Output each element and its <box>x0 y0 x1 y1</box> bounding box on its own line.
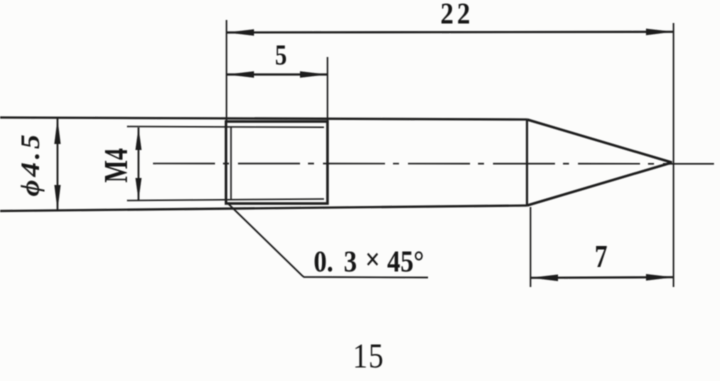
node thread outer box <box>226 122 328 204</box>
svg-text:3: 3 <box>344 245 357 279</box>
svg-text:5: 5 <box>275 40 287 71</box>
svg-text:15: 15 <box>353 337 384 376</box>
svg-text:0.: 0. <box>314 245 334 279</box>
svg-text:22: 22 <box>440 0 473 31</box>
node arrow 7 left <box>531 275 559 282</box>
wire cone bottom slope <box>527 163 672 206</box>
svg-text:×: × <box>365 243 380 277</box>
node arrowheads <box>54 29 673 282</box>
node label 7 <box>595 239 608 274</box>
wire cone base edge <box>526 120 528 206</box>
node arrow phi bottom <box>54 185 60 211</box>
wire extension line right of 5 <box>327 57 329 121</box>
node arrow 7 right <box>646 274 674 281</box>
wire thread inner bottom line <box>127 199 324 201</box>
node arrow phi top <box>54 119 60 145</box>
node arrow 5 right <box>300 71 328 78</box>
node arrow 22 right <box>646 29 674 36</box>
wire dimension line 5 <box>227 73 328 75</box>
wire body top outline <box>0 118 527 120</box>
wire centerline <box>153 163 714 165</box>
node arrow 22 left <box>227 29 255 36</box>
node label 5 <box>275 40 287 71</box>
wire dimension line 7 <box>531 276 674 279</box>
wire dimension line M4 <box>138 128 140 201</box>
wire dimension line 22 <box>227 31 674 34</box>
svg-text:7: 7 <box>595 239 608 274</box>
wire chamfer leader line <box>228 204 428 278</box>
wire dimension line phi4.5 <box>57 119 59 211</box>
node arrow 5 left <box>227 71 255 78</box>
node label 22 <box>440 0 473 31</box>
svg-text:ϕ4.5: ϕ4.5 <box>15 131 44 196</box>
node arrow M4 bottom <box>135 178 141 200</box>
wire extension line left (shared 22 and 5) <box>226 20 228 121</box>
wire extension line left of 7 <box>530 207 532 287</box>
wire cone top slope <box>527 120 672 163</box>
node arrow M4 top <box>135 128 141 151</box>
svg-text:M4: M4 <box>98 148 135 182</box>
node figure number 15 <box>353 337 384 376</box>
wire body bottom outline <box>0 206 527 212</box>
svg-text:45°: 45° <box>387 245 424 279</box>
node label 0.3x45 chamfer <box>314 243 424 279</box>
wire thread inner left edge <box>230 127 232 200</box>
wire thread inner top line <box>127 126 324 129</box>
wire extension line right (shared 22 and 7) <box>673 23 675 287</box>
